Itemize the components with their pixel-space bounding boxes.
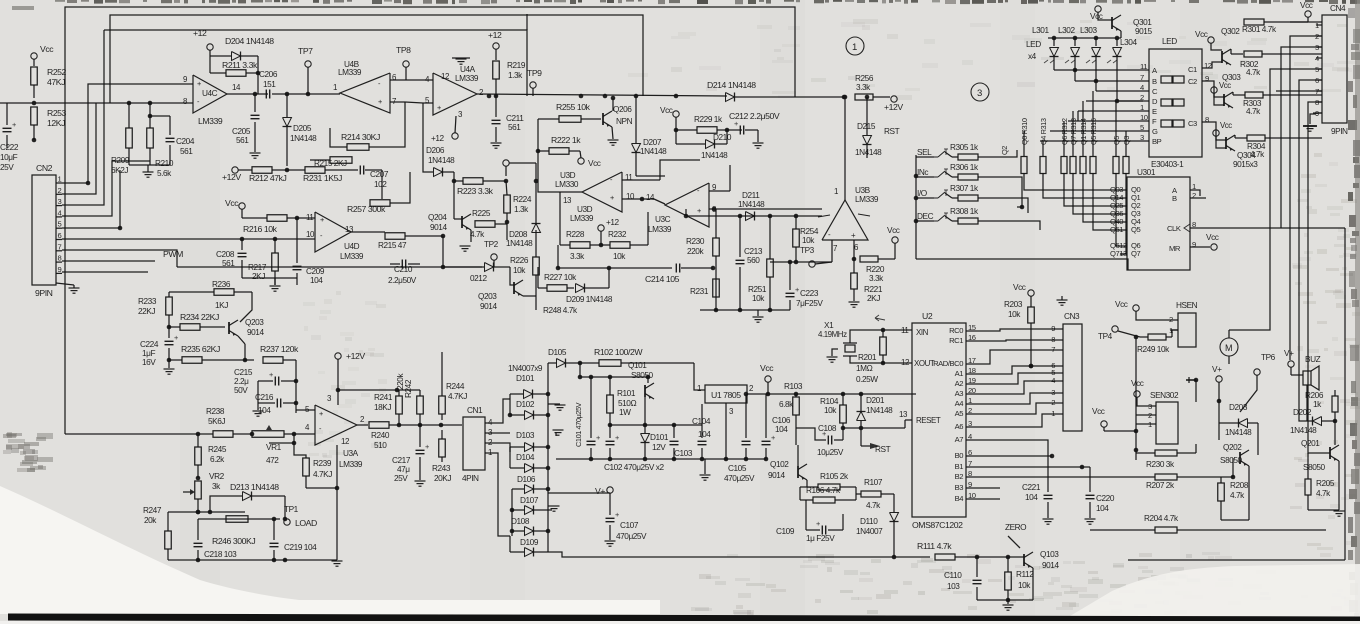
svg-text:R241: R241 bbox=[374, 393, 393, 402]
resistor R304 bbox=[1247, 135, 1265, 141]
svg-text:Q204: Q204 bbox=[428, 213, 447, 222]
svg-text:R214 30KJ: R214 30KJ bbox=[341, 132, 380, 142]
svg-text:9014: 9014 bbox=[480, 302, 497, 311]
wire mcu bottom rail bbox=[548, 552, 930, 557]
svg-text:Vcc: Vcc bbox=[760, 363, 774, 373]
svg-text:13: 13 bbox=[563, 196, 572, 205]
svg-text:Q203: Q203 bbox=[245, 318, 264, 327]
wires U2 to CN3 bbox=[975, 329, 1057, 331]
wire U3A pin5 bbox=[296, 409, 315, 411]
svg-text:TP1: TP1 bbox=[284, 505, 299, 514]
svg-text:R210: R210 bbox=[155, 159, 174, 168]
svg-text:10k: 10k bbox=[802, 236, 815, 245]
transistor Q301 bbox=[1111, 17, 1113, 29]
power Vcc R203 bbox=[1028, 290, 1034, 296]
resistor R244 bbox=[439, 396, 446, 414]
wire bottom gnd row bbox=[168, 559, 337, 561]
wire sw risers bbox=[1008, 150, 1017, 157]
svg-text:R307 1k: R307 1k bbox=[950, 184, 979, 193]
power +12 node bbox=[207, 44, 213, 50]
svg-text:SEL: SEL bbox=[917, 148, 932, 157]
svg-text:C3: C3 bbox=[1188, 119, 1197, 128]
svg-text:D208: D208 bbox=[509, 230, 528, 239]
power Vcc U4D bbox=[239, 203, 245, 209]
svg-text:PWM: PWM bbox=[163, 249, 183, 259]
svg-text:R231 1K5J: R231 1K5J bbox=[303, 173, 342, 183]
resistor R229 bbox=[697, 127, 717, 134]
connector CN2 bbox=[32, 175, 56, 285]
wire led anode bus bbox=[1048, 37, 1121, 39]
svg-text:R105 2k: R105 2k bbox=[820, 472, 849, 481]
transistor Q103 bbox=[1023, 554, 1025, 566]
ic HSEN bbox=[1178, 313, 1196, 347]
ground C217 bbox=[415, 480, 426, 482]
capacitor C101 bbox=[587, 440, 596, 442]
wire U301 left pins bbox=[1024, 186, 1120, 190]
svg-text:A6: A6 bbox=[955, 422, 964, 431]
svg-text:LM339: LM339 bbox=[570, 214, 594, 223]
power Vcc small bbox=[578, 158, 584, 164]
svg-text:D203: D203 bbox=[1229, 403, 1248, 412]
svg-text:R203: R203 bbox=[1004, 300, 1023, 309]
svg-text:Vcc: Vcc bbox=[1195, 30, 1208, 39]
svg-text:4PIN: 4PIN bbox=[462, 474, 479, 483]
svg-text:C208: C208 bbox=[216, 250, 235, 259]
svg-text:R230 3k: R230 3k bbox=[1146, 460, 1175, 469]
svg-text:L303: L303 bbox=[1080, 26, 1097, 35]
svg-text:DEC: DEC bbox=[917, 212, 934, 221]
svg-text:TP2: TP2 bbox=[484, 240, 499, 249]
svg-text:R251: R251 bbox=[748, 285, 767, 294]
wire load row bbox=[168, 511, 245, 513]
svg-text:R248 4.7k: R248 4.7k bbox=[543, 306, 578, 315]
test point TP1 bbox=[284, 519, 290, 525]
svg-text:10k: 10k bbox=[752, 294, 765, 303]
svg-text:RST: RST bbox=[884, 127, 900, 136]
power +12V U3A bbox=[335, 353, 341, 359]
wire ladder right rail bbox=[547, 363, 549, 552]
svg-text:L301: L301 bbox=[1032, 26, 1049, 35]
svg-text:C221: C221 bbox=[1022, 483, 1041, 492]
svg-text:Q201: Q201 bbox=[1301, 439, 1320, 448]
svg-text:R207 2k: R207 2k bbox=[1146, 481, 1175, 490]
svg-text:+12: +12 bbox=[606, 218, 620, 227]
svg-text:4.7k: 4.7k bbox=[866, 501, 881, 510]
svg-text:Vcc: Vcc bbox=[225, 198, 239, 208]
svg-text:561: 561 bbox=[180, 147, 193, 156]
svg-text:C101 470μ25V: C101 470μ25V bbox=[574, 402, 583, 447]
led L301 bbox=[1050, 48, 1059, 57]
svg-text:LM339: LM339 bbox=[855, 195, 879, 204]
capacitor C109 bbox=[821, 526, 823, 535]
ground bottom-left bbox=[332, 560, 343, 562]
svg-text:10μF: 10μF bbox=[0, 153, 18, 162]
svg-text:R254: R254 bbox=[800, 227, 819, 236]
svg-text:R257 300k: R257 300k bbox=[347, 204, 386, 214]
marker circled 1 bbox=[846, 37, 864, 55]
svg-text:16V: 16V bbox=[142, 358, 156, 367]
wire inner top border bbox=[110, 15, 643, 103]
svg-text:R221: R221 bbox=[864, 285, 883, 294]
svg-text:V+: V+ bbox=[1212, 365, 1222, 374]
test point TP8 bbox=[403, 61, 409, 67]
wire U3C pin8 net bbox=[685, 209, 687, 216]
svg-text:470μ25V: 470μ25V bbox=[724, 474, 755, 483]
diode D105 bbox=[557, 359, 566, 368]
capacitor C216 bbox=[276, 399, 278, 408]
svg-text:5: 5 bbox=[58, 220, 62, 229]
svg-text:D106: D106 bbox=[517, 475, 536, 484]
svg-text:S8050: S8050 bbox=[631, 371, 654, 380]
svg-text:D107: D107 bbox=[520, 496, 539, 505]
wire psu top rail bbox=[579, 363, 581, 377]
svg-text:1N4148: 1N4148 bbox=[866, 406, 893, 415]
ground psu bbox=[704, 459, 706, 474]
svg-text:B0: B0 bbox=[955, 451, 964, 460]
svg-text:A2: A2 bbox=[955, 379, 964, 388]
ground D102 bbox=[548, 403, 560, 405]
svg-text:Q7: Q7 bbox=[1131, 249, 1140, 258]
resistor R206 bbox=[1332, 396, 1338, 412]
resistor R241 bbox=[396, 396, 403, 414]
svg-text:Q102: Q102 bbox=[770, 460, 789, 469]
svg-text:Q101: Q101 bbox=[628, 361, 647, 370]
motor M bbox=[1220, 338, 1238, 356]
svg-text:Q302: Q302 bbox=[1221, 27, 1240, 36]
svg-text:10k: 10k bbox=[1018, 581, 1031, 590]
svg-text:Q5: Q5 bbox=[1131, 225, 1140, 234]
resistor R255 bbox=[559, 116, 581, 123]
svg-text:L302: L302 bbox=[1058, 26, 1075, 35]
resistor R242 bbox=[417, 396, 424, 414]
svg-text:10k: 10k bbox=[824, 406, 837, 415]
svg-text:1W: 1W bbox=[619, 408, 631, 417]
svg-text:VR2: VR2 bbox=[209, 472, 225, 481]
resistor R226 bbox=[533, 257, 540, 275]
resistor R231b bbox=[713, 279, 720, 297]
capacitor C104 bbox=[698, 440, 707, 442]
wire U301 right bbox=[1190, 190, 1200, 196]
svg-text:C205: C205 bbox=[232, 127, 251, 136]
capacitor C218 bbox=[194, 542, 203, 544]
svg-text:R236: R236 bbox=[212, 280, 231, 289]
svg-text:U3A: U3A bbox=[343, 449, 359, 458]
capacitor C207 bbox=[359, 166, 361, 175]
svg-text:472: 472 bbox=[266, 456, 279, 465]
svg-text:CN2: CN2 bbox=[36, 163, 53, 173]
svg-text:+: + bbox=[378, 97, 382, 106]
marker circled 3 bbox=[971, 83, 989, 101]
svg-text:9015: 9015 bbox=[1135, 27, 1152, 36]
svg-text:1: 1 bbox=[58, 175, 62, 184]
wire psu mid bbox=[644, 397, 646, 425]
svg-text:104: 104 bbox=[310, 276, 323, 285]
capacitor C103 bbox=[670, 440, 679, 442]
svg-text:R204 4.7k: R204 4.7k bbox=[1144, 514, 1179, 523]
svg-text:R301 4.7k: R301 4.7k bbox=[1242, 25, 1277, 34]
svg-text:C108: C108 bbox=[818, 424, 837, 433]
svg-text:Vcc: Vcc bbox=[1115, 300, 1128, 309]
power Vcc HSEN bbox=[1133, 305, 1139, 311]
svg-text:50V: 50V bbox=[234, 386, 248, 395]
resistor R106 bbox=[813, 497, 835, 503]
capacitor C219 bbox=[270, 542, 279, 544]
svg-text:8: 8 bbox=[1205, 115, 1209, 124]
test point TP9 bbox=[530, 82, 536, 88]
svg-text:1N4148: 1N4148 bbox=[290, 134, 317, 143]
svg-text:R238: R238 bbox=[206, 407, 225, 416]
svg-text:25V: 25V bbox=[0, 163, 14, 172]
svg-text:9PIN: 9PIN bbox=[35, 288, 53, 298]
potentiometer VR2 bbox=[195, 481, 202, 499]
svg-text:220k: 220k bbox=[396, 373, 405, 390]
wire VR1 tap bbox=[269, 434, 294, 443]
power Vcc R301 bbox=[1305, 11, 1311, 17]
right edge continuous strip bbox=[1355, 0, 1360, 624]
ground mcu top bbox=[1057, 299, 1068, 301]
svg-text:20k: 20k bbox=[144, 516, 157, 525]
svg-text:R209: R209 bbox=[111, 156, 130, 165]
svg-text:3.3k: 3.3k bbox=[570, 252, 585, 261]
svg-text:20KJ: 20KJ bbox=[434, 474, 451, 483]
resistor R308 bbox=[945, 216, 952, 221]
svg-text:C1: C1 bbox=[1188, 65, 1197, 74]
svg-text:C110: C110 bbox=[944, 571, 962, 580]
svg-text:RC1: RC1 bbox=[949, 336, 963, 345]
diode D108 bbox=[525, 527, 534, 536]
svg-text:RESET: RESET bbox=[916, 416, 941, 425]
svg-text:1N4148: 1N4148 bbox=[428, 156, 455, 165]
svg-text:X1: X1 bbox=[824, 321, 834, 330]
top edge scan noise band bbox=[12, 6, 34, 10]
resistor R203 bbox=[1028, 307, 1035, 323]
wire U4A inputs bbox=[420, 79, 433, 81]
svg-text:BP: BP bbox=[1152, 137, 1162, 146]
resistor R252 bbox=[31, 67, 38, 85]
svg-text:R215 47: R215 47 bbox=[378, 241, 407, 250]
resistor R234 bbox=[180, 324, 200, 331]
svg-text:+: + bbox=[12, 120, 16, 129]
svg-text:S8050: S8050 bbox=[1303, 463, 1326, 472]
wire xin xout bbox=[850, 330, 912, 343]
resistor R305 bbox=[945, 152, 952, 157]
svg-text:R224: R224 bbox=[513, 195, 532, 204]
svg-text:INc: INc bbox=[917, 168, 928, 177]
svg-text:3k: 3k bbox=[212, 482, 221, 491]
svg-text:1μF: 1μF bbox=[142, 349, 155, 358]
diode D211 bbox=[746, 212, 755, 221]
svg-text:2: 2 bbox=[58, 186, 62, 195]
ground C211 bbox=[491, 142, 502, 144]
resistor R235 bbox=[182, 357, 202, 364]
svg-text:R220: R220 bbox=[866, 265, 885, 274]
resistor R107 bbox=[861, 491, 881, 497]
wire vcc rail to mcu bbox=[790, 393, 916, 395]
wire U3B pin6 bbox=[853, 240, 855, 259]
op-amp U4B bbox=[340, 73, 390, 113]
diode D215 bbox=[863, 136, 872, 145]
svg-text:470μ25V: 470μ25V bbox=[616, 532, 647, 541]
svg-text:R239: R239 bbox=[313, 459, 332, 468]
capacitor C211 bbox=[492, 119, 501, 121]
power Vcc SEN bbox=[1134, 391, 1140, 397]
wire psu gnd rail bbox=[556, 458, 766, 460]
power Vcc left bbox=[1101, 421, 1107, 427]
svg-text:R228: R228 bbox=[566, 230, 585, 239]
svg-text:A3: A3 bbox=[955, 389, 964, 398]
wire y30 segment bbox=[104, 30, 527, 96]
svg-text:R101: R101 bbox=[617, 389, 636, 398]
wire U3B out bbox=[844, 97, 846, 200]
svg-text:R227 10k: R227 10k bbox=[544, 273, 577, 282]
svg-text:+: + bbox=[596, 433, 600, 442]
svg-text:5.6k: 5.6k bbox=[157, 169, 172, 178]
ic U301 bbox=[1127, 177, 1190, 270]
svg-text:9014: 9014 bbox=[768, 471, 785, 480]
ic SEN302 bbox=[1156, 402, 1178, 444]
svg-text:C2: C2 bbox=[1188, 77, 1197, 86]
svg-text:U3D: U3D bbox=[577, 205, 593, 214]
svg-text:1KJ: 1KJ bbox=[215, 301, 228, 310]
svg-text:R216 10k: R216 10k bbox=[243, 224, 278, 234]
svg-text:Vcc: Vcc bbox=[1219, 81, 1231, 90]
svg-text:3.3k: 3.3k bbox=[856, 83, 871, 92]
svg-text:R205: R205 bbox=[1316, 479, 1335, 488]
resistor R233 bbox=[166, 297, 173, 315]
svg-text:Vcc: Vcc bbox=[887, 226, 900, 235]
svg-text:10: 10 bbox=[306, 230, 315, 239]
svg-text:R242: R242 bbox=[404, 379, 413, 398]
resistor R214 bbox=[347, 144, 369, 151]
ground Q201 bbox=[1338, 461, 1340, 510]
svg-text:L304: L304 bbox=[1120, 38, 1137, 47]
bottom-left white page corner bbox=[0, 486, 660, 613]
ground C221 bbox=[1043, 518, 1054, 520]
svg-text:x4: x4 bbox=[1028, 52, 1037, 61]
capacitor C105 bbox=[742, 440, 751, 442]
svg-text:C109: C109 bbox=[776, 527, 795, 536]
transistor Q206 bbox=[602, 113, 604, 125]
svg-text:+: + bbox=[425, 442, 429, 451]
resistor R212 bbox=[252, 167, 272, 174]
capacitor C210 bbox=[401, 260, 403, 269]
svg-text:A4: A4 bbox=[955, 399, 965, 408]
power +12 mid bbox=[598, 225, 604, 231]
capacitor C107 bbox=[606, 517, 615, 519]
svg-text:D205: D205 bbox=[293, 124, 312, 133]
capacitor C204 bbox=[166, 137, 175, 139]
svg-text:8: 8 bbox=[58, 254, 62, 263]
wire bank tops bbox=[1023, 131, 1025, 147]
svg-text:10μ25V: 10μ25V bbox=[817, 448, 844, 457]
svg-text:6.2k: 6.2k bbox=[210, 455, 225, 464]
svg-text:LM339: LM339 bbox=[648, 225, 672, 234]
svg-text:B4: B4 bbox=[955, 494, 965, 503]
ground TP8 net bbox=[452, 57, 470, 59]
svg-text:5K6J: 5K6J bbox=[208, 417, 225, 426]
regulator U1 7805 bbox=[705, 385, 747, 403]
svg-text:A5: A5 bbox=[955, 409, 964, 418]
svg-text:V+: V+ bbox=[1284, 349, 1294, 358]
ground psu left bbox=[555, 432, 557, 436]
svg-text:R102 100/2W: R102 100/2W bbox=[594, 347, 643, 357]
svg-text:BUZ: BUZ bbox=[1305, 355, 1321, 364]
svg-text:D204 1N4148: D204 1N4148 bbox=[225, 36, 274, 46]
svg-text:1N4148: 1N4148 bbox=[1225, 428, 1252, 437]
power +12V right bbox=[891, 96, 897, 102]
svg-text:D210: D210 bbox=[713, 133, 732, 142]
bottom black scan bar bbox=[8, 614, 1360, 624]
svg-text:R253: R253 bbox=[47, 108, 67, 118]
svg-text:B3: B3 bbox=[955, 483, 964, 492]
transistor Q203 bbox=[228, 322, 230, 334]
resistor R222 bbox=[549, 148, 569, 155]
bottom-right white page corner bbox=[1060, 564, 1360, 622]
svg-text:Vcc: Vcc bbox=[1092, 407, 1105, 416]
wire R238 row bbox=[65, 433, 213, 435]
svg-text:+: + bbox=[197, 79, 201, 88]
wire psu node mid bbox=[610, 424, 702, 426]
svg-text:C102 470μ25V x2: C102 470μ25V x2 bbox=[604, 463, 664, 472]
svg-text:1μ F25V: 1μ F25V bbox=[806, 534, 835, 543]
svg-text:510Ω: 510Ω bbox=[618, 399, 636, 408]
power +12 U4A bbox=[493, 43, 499, 49]
svg-text:D104: D104 bbox=[516, 453, 535, 462]
wire +12V row bbox=[232, 167, 238, 173]
led L303 bbox=[1092, 48, 1101, 57]
svg-text:4.7k: 4.7k bbox=[1246, 68, 1261, 77]
svg-text:D215: D215 bbox=[857, 122, 876, 131]
svg-text:C220: C220 bbox=[1096, 494, 1115, 503]
svg-text:6K2J: 6K2J bbox=[111, 166, 128, 175]
transistor Q302 bbox=[1221, 51, 1223, 63]
svg-text:R247: R247 bbox=[143, 506, 162, 515]
ground Q206 bbox=[612, 127, 613, 139]
display module E30403-1 bbox=[1149, 49, 1202, 157]
resistor R243 bbox=[439, 439, 446, 457]
svg-text:1.3k: 1.3k bbox=[514, 205, 529, 214]
svg-text:22KJ: 22KJ bbox=[138, 307, 155, 316]
test point TP6 bbox=[1254, 369, 1260, 375]
op-amp U3B bbox=[822, 200, 868, 240]
power Vcc Q301 bbox=[1095, 6, 1101, 12]
svg-text:R103: R103 bbox=[784, 382, 803, 391]
svg-text:13: 13 bbox=[345, 225, 354, 234]
resistor R307 bbox=[945, 193, 952, 198]
wire U3B pin7 bbox=[831, 240, 833, 262]
svg-text:TP3: TP3 bbox=[800, 246, 815, 255]
resistor R303 bbox=[1245, 92, 1263, 98]
svg-text:C106: C106 bbox=[772, 416, 791, 425]
svg-text:R256: R256 bbox=[855, 74, 874, 83]
svg-text:+12: +12 bbox=[488, 30, 502, 40]
svg-text:Vcc: Vcc bbox=[1300, 1, 1313, 10]
right edge scan noise band bbox=[1350, 0, 1357, 4]
op-amp U3C bbox=[665, 183, 709, 227]
svg-text:510: 510 bbox=[374, 441, 387, 450]
svg-text:1MΩ: 1MΩ bbox=[856, 364, 873, 373]
svg-text:A1: A1 bbox=[955, 369, 964, 378]
wire tp-line R224 bbox=[503, 160, 509, 166]
svg-text:C219 104: C219 104 bbox=[284, 543, 317, 552]
resistor R238 bbox=[213, 431, 233, 438]
capacitor C222 bbox=[3, 127, 12, 129]
svg-text:B2: B2 bbox=[955, 472, 964, 481]
svg-text:D108: D108 bbox=[511, 517, 530, 526]
svg-text:C213: C213 bbox=[744, 247, 763, 256]
ground C205 bbox=[250, 152, 261, 154]
wire tp3 row bbox=[770, 261, 832, 263]
